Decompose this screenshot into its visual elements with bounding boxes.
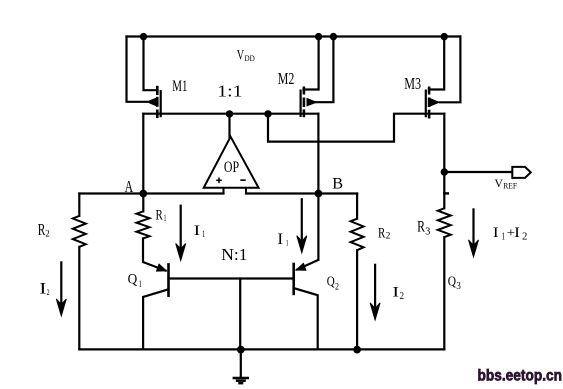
ground rail (79, 348, 444, 350)
wire M2 source (304, 37, 319, 90)
label R2 right (378, 226, 391, 242)
transistor Q2 (294, 260, 319, 295)
svg-text:I: I (493, 225, 499, 241)
svg-text:I: I (39, 281, 46, 298)
label Q2 (327, 275, 339, 293)
node B junction dot (315, 190, 323, 198)
junction dot VREF node (441, 168, 448, 175)
wire M2 bulk (316, 37, 333, 103)
svg-text:2: 2 (400, 291, 404, 302)
svg-text:3: 3 (425, 226, 430, 238)
junction dot ground (237, 346, 245, 354)
svg-text:DD: DD (245, 54, 255, 63)
label VDD (237, 47, 255, 63)
label VREF (494, 177, 517, 190)
wire node B to R2 right (356, 194, 358, 219)
junction dot rail M3 source (441, 33, 448, 40)
wire M1 source (144, 37, 158, 91)
current arrow I2 right (370, 264, 380, 320)
resistor R2 right (351, 219, 364, 251)
resistor R3 (438, 208, 451, 237)
svg-text:1: 1 (286, 238, 289, 248)
label Q3 (448, 275, 461, 292)
svg-text:Q: Q (327, 275, 335, 290)
label I1 left (194, 223, 205, 239)
label I1+I2 (493, 225, 528, 243)
svg-text:R: R (156, 206, 164, 223)
junction dot rail M2 bulk (330, 33, 337, 40)
svg-text:1: 1 (164, 213, 167, 223)
wire R2 left bottom to ground rail (78, 247, 80, 350)
junction dot rail M1 source (140, 33, 147, 40)
node B line (246, 192, 357, 194)
wire stub on Q3 branch at node level (444, 192, 448, 194)
svg-text:1: 1 (502, 232, 506, 243)
svg-text:OP: OP (224, 159, 239, 176)
node A line (79, 192, 223, 194)
current arrow I1+I2 (469, 208, 479, 257)
resistor R1 (137, 211, 150, 238)
label minus input (240, 179, 245, 181)
wire VREF tap (444, 171, 512, 173)
wire ground stub (240, 349, 242, 377)
current arrow I1 right (297, 198, 307, 253)
wire M3 drain down to VREF node (443, 114, 445, 209)
svg-text:3: 3 (456, 280, 461, 292)
svg-text:M1: M1 (172, 78, 187, 95)
junction dot bus tap to M3 (264, 110, 271, 117)
transistor M3 (426, 87, 441, 119)
transistor M1 (146, 86, 161, 118)
label plus input (216, 178, 222, 184)
wire M3 source (429, 37, 444, 90)
wire Q1 collector to ground rail (143, 289, 168, 349)
svg-text:B: B (332, 176, 343, 193)
svg-text:M2: M2 (278, 69, 295, 88)
svg-text:I: I (277, 231, 283, 248)
node A junction dot (139, 190, 147, 198)
svg-text:2: 2 (45, 230, 50, 240)
svg-text:bbs.eetop.cn: bbs.eetop.cn (478, 368, 563, 385)
junction dot rail M2 source (315, 33, 322, 40)
label I2 right (392, 285, 404, 302)
wire Q2 collector to ground rail (294, 288, 318, 349)
svg-text:I: I (194, 223, 201, 239)
op-amp U1 (204, 137, 259, 194)
svg-text:M3: M3 (404, 74, 421, 93)
wire node A to R2 left (78, 194, 80, 216)
svg-text:N:1: N:1 (221, 245, 247, 264)
wire node B down to Q2 emitter (317, 194, 319, 260)
svg-text:2: 2 (47, 287, 50, 297)
ground (233, 378, 249, 383)
label R3 (417, 219, 430, 238)
wire M2 drain to node B (317, 114, 319, 194)
wire M1 drain to node A (142, 114, 144, 194)
resistor R2 left (73, 216, 86, 247)
svg-text:Q: Q (128, 272, 138, 288)
wire op-amp output (228, 114, 230, 138)
output port VREF (512, 167, 531, 178)
power rail VDD (127, 35, 461, 37)
drain bus M1-M2 (143, 113, 318, 115)
wire node A to R1 (142, 194, 144, 212)
svg-text:2: 2 (335, 281, 339, 292)
label Q1 (128, 272, 142, 290)
svg-text:1: 1 (202, 229, 205, 239)
svg-text:Q: Q (448, 275, 456, 290)
wire R2 right bottom to ground rail (356, 250, 358, 349)
svg-text:A: A (125, 177, 134, 196)
svg-text:1: 1 (139, 280, 142, 290)
junction dot R2 right at rail (353, 346, 361, 354)
svg-text:I: I (392, 285, 399, 301)
transistor Q1 (143, 262, 169, 297)
transistor M2 (301, 87, 318, 118)
wire M3 bulk to VDD right corner (440, 37, 460, 103)
svg-text:1:1: 1:1 (217, 82, 242, 101)
wire Q1 Q2 common base (169, 277, 294, 279)
current arrow I2 left (56, 261, 66, 316)
junction dot op-amp output (226, 110, 233, 117)
svg-text:R: R (417, 219, 425, 236)
wire bus to M3 drain (Z route) (268, 114, 444, 142)
wire base node to ground rail (239, 279, 241, 350)
svg-text:REF: REF (503, 181, 517, 190)
wire M1 bulk to VDD left corner (127, 37, 148, 102)
svg-text:2: 2 (522, 232, 527, 243)
svg-text:2: 2 (386, 232, 391, 242)
label I2 left (39, 281, 49, 298)
label R1 (156, 206, 167, 223)
label R2 left (38, 220, 50, 240)
current arrow I1 left (176, 205, 186, 261)
svg-text:I: I (514, 225, 520, 241)
wire R3 bottom (Q3) to ground rail (443, 237, 445, 349)
label I1 right (277, 231, 288, 248)
svg-text:V: V (237, 47, 245, 63)
wire R1 bottom to Q1 emitter (142, 238, 144, 262)
